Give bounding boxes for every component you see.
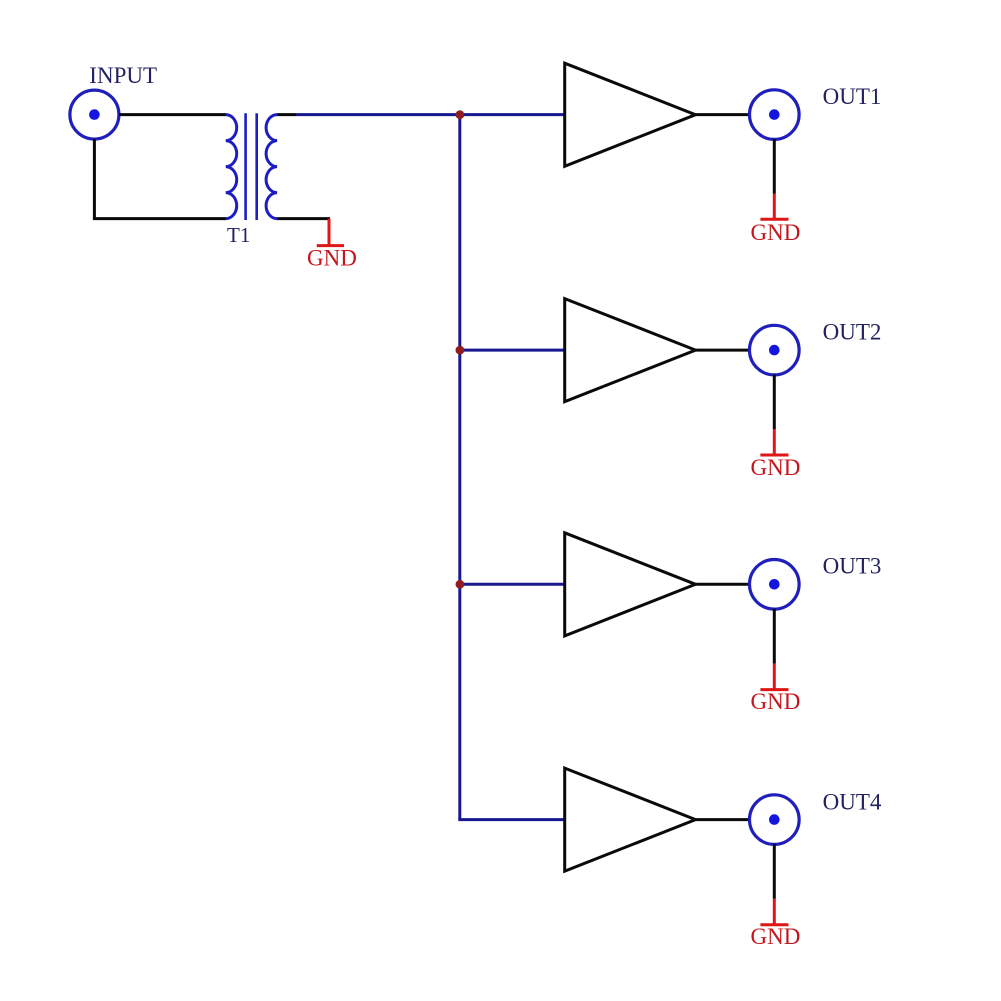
wire bus to amp2: [460, 349, 565, 352]
ground GND (OUT4): [751, 899, 801, 949]
wire input to transformer primary top: [119, 113, 226, 116]
wire bus vertical: [458, 115, 461, 820]
wire bus to amp4: [458, 818, 564, 821]
svg-text:GND: GND: [751, 924, 801, 949]
svg-text:OUT1: OUT1: [823, 84, 882, 109]
connector OUT3: [750, 560, 800, 610]
wire net secondary to amp1 input (blue): [296, 113, 565, 116]
svg-text:T1: T1: [227, 223, 250, 247]
svg-text:GND: GND: [751, 689, 801, 714]
ground GND (OUT2): [751, 429, 801, 480]
connector J1 INPUT: [70, 90, 119, 139]
wire input down: [93, 139, 96, 219]
wire input bottom to transformer primary bottom: [93, 217, 226, 220]
node junction 2: [456, 346, 465, 355]
op-amp U1: [565, 63, 696, 166]
svg-text:INPUT: INPUT: [89, 63, 157, 88]
svg-text:OUT4: OUT4: [823, 789, 882, 814]
wire secondary bottom to ground (black): [277, 217, 330, 220]
wire OUT3 to ground: [773, 609, 776, 664]
connector OUT2: [750, 325, 800, 375]
wire secondary top stub (black): [277, 113, 296, 116]
svg-text:OUT3: OUT3: [823, 554, 882, 579]
ground GND (transformer): [307, 219, 357, 271]
node junction 3: [456, 580, 465, 589]
op-amp U2: [565, 299, 696, 402]
ground GND (OUT3): [751, 664, 801, 714]
primary winding: [226, 115, 237, 219]
wire OUT4 to ground: [773, 844, 776, 899]
svg-text:GND: GND: [751, 220, 801, 245]
wire bus to amp3: [460, 583, 565, 586]
core line 2: [255, 113, 258, 220]
connector OUT1: [750, 90, 800, 140]
svg-text:OUT2: OUT2: [823, 319, 882, 344]
wire OUT2 to ground: [773, 375, 776, 430]
op-amp U3: [565, 533, 696, 636]
node junction 1: [456, 110, 465, 119]
wire amp3 output: [696, 583, 751, 586]
wire OUT1 to ground: [773, 139, 776, 194]
wire amp1 output: [696, 113, 751, 116]
secondary winding: [266, 115, 277, 219]
svg-text:GND: GND: [307, 246, 357, 271]
wire amp4 output: [696, 818, 751, 821]
transformer T1: [226, 113, 277, 220]
wire amp2 output: [696, 349, 751, 352]
ground GND (OUT1): [751, 194, 801, 246]
core line 1: [244, 113, 247, 220]
svg-text:GND: GND: [751, 455, 801, 480]
connector OUT4: [750, 795, 800, 845]
op-amp U4: [565, 768, 696, 871]
